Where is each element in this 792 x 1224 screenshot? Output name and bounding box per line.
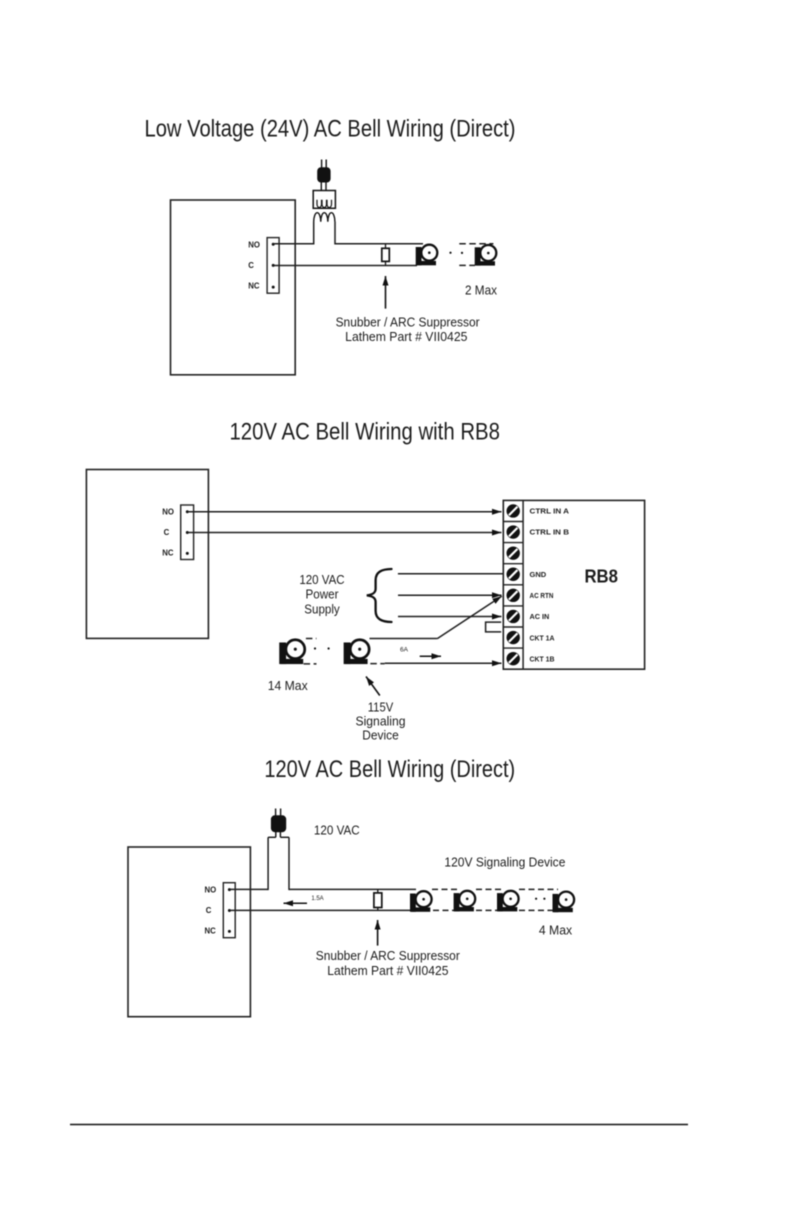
svg-text:C: C — [206, 906, 212, 915]
svg-text:AC IN: AC IN — [530, 612, 550, 621]
svg-text:Snubber / ARC Suppressor: Snubber / ARC Suppressor — [336, 315, 481, 330]
svg-text:115V: 115V — [368, 701, 394, 715]
svg-text:1.5A: 1.5A — [311, 896, 323, 902]
svg-text:120 VAC: 120 VAC — [314, 824, 360, 838]
svg-text:NO: NO — [248, 240, 260, 249]
svg-text:120V AC Bell Wiring with RB8: 120V AC Bell Wiring with RB8 — [229, 419, 500, 446]
svg-text:CTRL IN A: CTRL IN A — [530, 507, 570, 516]
svg-text:Supply: Supply — [304, 602, 340, 616]
svg-text:120V AC Bell Wiring (Direct): 120V AC Bell Wiring (Direct) — [264, 756, 515, 783]
svg-text:NC: NC — [162, 549, 174, 558]
svg-text:C: C — [164, 528, 170, 537]
svg-text:Snubber / ARC Suppressor: Snubber / ARC Suppressor — [316, 948, 461, 963]
svg-text:6A: 6A — [400, 646, 409, 653]
svg-text:NC: NC — [248, 281, 260, 290]
svg-text:GND: GND — [530, 570, 547, 579]
svg-text:NO: NO — [205, 886, 217, 895]
svg-text:Lathem Part # VII0425: Lathem Part # VII0425 — [345, 329, 467, 344]
svg-text:NC: NC — [205, 927, 217, 936]
svg-text:Device: Device — [362, 728, 399, 742]
svg-text:C: C — [248, 261, 254, 270]
svg-text:4 Max: 4 Max — [539, 923, 573, 937]
svg-text:14 Max: 14 Max — [268, 679, 309, 693]
svg-text:NO: NO — [162, 507, 174, 516]
svg-text:CTRL IN B: CTRL IN B — [530, 528, 570, 537]
svg-text:RB8: RB8 — [584, 567, 618, 587]
svg-text:Power: Power — [306, 588, 339, 602]
svg-text:CKT 1B: CKT 1B — [530, 654, 556, 663]
svg-text:2 Max: 2 Max — [465, 283, 498, 297]
svg-text:CKT 1A: CKT 1A — [530, 633, 556, 642]
svg-text:Lathem Part # VII0425: Lathem Part # VII0425 — [327, 963, 448, 978]
svg-text:120 VAC: 120 VAC — [299, 573, 344, 587]
svg-text:120V Signaling Device: 120V Signaling Device — [444, 856, 565, 870]
svg-text:AC RTN: AC RTN — [530, 591, 554, 600]
svg-text:Low Voltage (24V) AC Bell Wiri: Low Voltage (24V) AC Bell Wiring (Direct… — [145, 116, 516, 143]
svg-text:Signaling: Signaling — [356, 714, 406, 728]
